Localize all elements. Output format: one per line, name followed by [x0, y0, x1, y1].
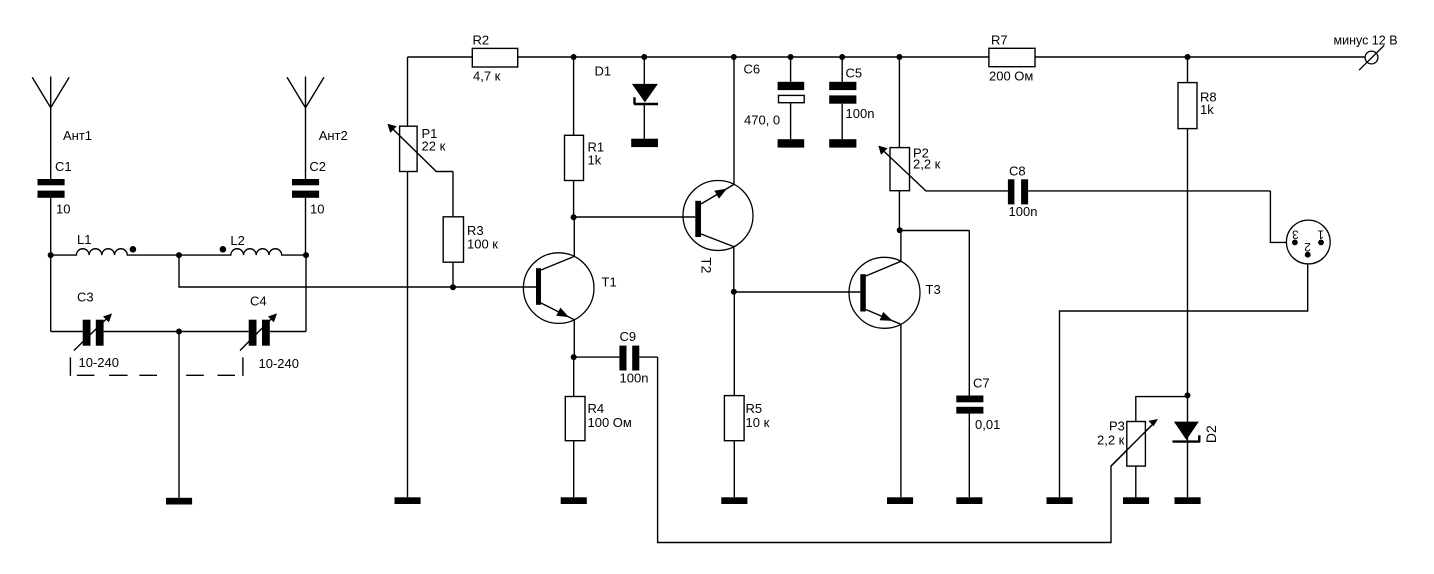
diode D1: [632, 57, 658, 139]
wire C3 C4 line: [51, 331, 306, 333]
svg-text:L1: L1: [77, 232, 91, 247]
capacitor C5: [829, 57, 856, 139]
resistor R1: [565, 57, 584, 217]
node rail D1: [641, 54, 647, 60]
capacitor C1: [38, 179, 65, 198]
transistor T3: [849, 231, 920, 498]
antenna Ант1: [32, 77, 69, 180]
node tank right: [303, 252, 309, 258]
svg-text:L2: L2: [230, 233, 244, 248]
ground C5: [829, 139, 856, 147]
potentiometer P3: [1111, 397, 1188, 498]
antenna Ант2: [287, 77, 324, 180]
wire centre tap to ground: [178, 332, 180, 498]
ground D1: [631, 139, 658, 147]
svg-text:2,2 к: 2,2 к: [913, 157, 941, 172]
node R1 bottom junction: [571, 214, 577, 220]
ground P1: [395, 497, 421, 504]
svg-text:C2: C2: [309, 159, 326, 174]
svg-text:10: 10: [310, 201, 324, 216]
svg-text:Ант1: Ант1: [63, 128, 92, 143]
wire C1 to tank: [50, 198, 52, 332]
ground C6: [778, 139, 805, 147]
node R8 P3 junction: [1185, 392, 1191, 398]
ground T3: [887, 497, 913, 504]
capacitor C9: [574, 346, 658, 371]
svg-text:22 к: 22 к: [422, 139, 446, 154]
node rail C5: [839, 54, 845, 60]
ground C7: [956, 497, 982, 504]
svg-text:C6: C6: [744, 61, 761, 76]
wire tuning gang dashed link: [70, 357, 243, 376]
svg-text:минус 12 В: минус 12 В: [1334, 33, 1398, 47]
svg-text:0,01: 0,01: [975, 417, 1000, 432]
node tank centre: [176, 252, 182, 258]
svg-text:4,7 к: 4,7 к: [473, 69, 501, 84]
inductor L2: [179, 249, 306, 255]
connector XS1: [1286, 220, 1330, 264]
wire C8 to connector pin3: [1270, 191, 1295, 243]
svg-text:R7: R7: [991, 32, 1008, 47]
capacitor C3: [74, 313, 112, 350]
svg-text:100 к: 100 к: [467, 237, 498, 252]
svg-text:10: 10: [56, 201, 70, 216]
resistor R8: [1178, 57, 1197, 497]
wire junction to C7: [900, 230, 970, 232]
potentiometer P2: [878, 57, 1008, 230]
svg-text:100 Ом: 100 Ом: [588, 415, 632, 430]
svg-text:T3: T3: [926, 282, 941, 297]
resistor R3: [443, 172, 463, 288]
svg-text:T1: T1: [602, 275, 617, 290]
terminal минус 12 В: [1359, 45, 1384, 70]
svg-text:C7: C7: [973, 376, 990, 391]
capacitor C4: [240, 313, 277, 350]
node tank left: [48, 252, 54, 258]
node C3 C4 centre: [176, 329, 182, 335]
svg-text:D1: D1: [595, 63, 612, 78]
node rail T2: [731, 54, 737, 60]
wire negative supply rail y=57: [408, 56, 1366, 58]
potentiometer P1: [387, 57, 453, 497]
node P2 bottom T3 collector junction: [897, 227, 903, 233]
svg-text:P3: P3: [1109, 419, 1125, 434]
transistor T1: [523, 217, 594, 357]
node L1 polarity dot: [130, 246, 137, 253]
svg-text:1k: 1k: [588, 153, 602, 168]
capacitor C2: [292, 179, 319, 198]
svg-text:R4: R4: [588, 401, 605, 416]
node rail R1: [571, 54, 577, 60]
svg-text:10-240: 10-240: [259, 356, 299, 371]
svg-text:100n: 100n: [620, 371, 649, 386]
svg-text:R2: R2: [473, 32, 490, 47]
svg-text:3: 3: [1292, 228, 1299, 242]
ground output: [1047, 497, 1073, 504]
svg-text:C5: C5: [846, 66, 863, 81]
svg-text:2,2 к: 2,2 к: [1097, 433, 1125, 448]
diode D2: [1173, 422, 1201, 442]
wire tank centre tap to T1 base: [179, 255, 536, 287]
svg-text:C8: C8: [1009, 164, 1026, 179]
wire R1 junction to T2 base: [574, 216, 696, 218]
capacitor C8: [1008, 179, 1271, 204]
capacitor C7: [956, 231, 983, 498]
ground P3: [1123, 497, 1149, 504]
svg-text:C9: C9: [620, 329, 637, 344]
svg-text:470, 0: 470, 0: [744, 113, 780, 128]
node R3 base junction: [450, 284, 456, 290]
svg-text:1: 1: [1317, 228, 1324, 242]
svg-text:D2: D2: [1203, 425, 1219, 443]
svg-text:200 Ом: 200 Ом: [989, 69, 1033, 84]
svg-text:2: 2: [1304, 240, 1311, 254]
wire connector pin2 to ground: [1060, 255, 1308, 498]
node rail P2: [896, 54, 902, 60]
resistor R4: [565, 357, 585, 497]
node rail R8: [1185, 54, 1191, 60]
svg-text:10-240: 10-240: [79, 355, 119, 370]
ground tank: [166, 498, 192, 505]
wire T2 emitter to T3 base: [734, 291, 861, 293]
svg-text:1k: 1k: [1200, 102, 1214, 117]
svg-text:100n: 100n: [1009, 204, 1038, 219]
svg-text:C4: C4: [250, 294, 267, 309]
svg-text:C1: C1: [55, 159, 72, 174]
node T1 emitter junction: [571, 354, 577, 360]
resistor R7: [989, 48, 1035, 66]
wire C9 feedback to P3 wiper: [658, 357, 1154, 542]
resistor R2: [472, 48, 517, 67]
wire L2 right down to C4: [305, 255, 307, 331]
node rail C6: [788, 54, 794, 60]
resistor R5: [724, 292, 744, 498]
svg-text:100n: 100n: [846, 106, 875, 121]
node L2 polarity dot: [220, 246, 227, 253]
transistor T2: [683, 57, 753, 292]
svg-text:Ант2: Ант2: [319, 128, 348, 143]
wire C2 to L2: [305, 198, 307, 255]
inductor L1: [51, 249, 179, 255]
svg-text:T2: T2: [699, 257, 715, 274]
node T2 emitter R5 junction: [731, 289, 737, 295]
ground R5: [721, 497, 747, 504]
svg-text:C3: C3: [77, 290, 94, 305]
ground D2: [1175, 497, 1201, 504]
svg-text:10 к: 10 к: [746, 415, 770, 430]
capacitor C6 electrolytic: [778, 57, 805, 139]
svg-text:R5: R5: [746, 401, 763, 416]
ground R4: [561, 497, 587, 504]
